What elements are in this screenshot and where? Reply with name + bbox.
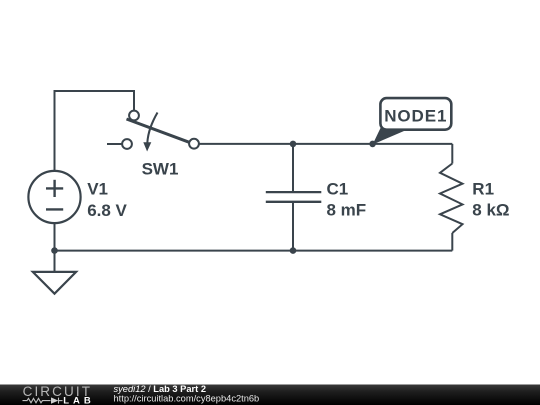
wire V1 bottom to ground junction	[54, 223, 56, 251]
svg-text:SW1: SW1	[142, 160, 179, 179]
ground	[33, 251, 76, 294]
junction dot C1 top	[290, 141, 297, 148]
svg-text:R1: R1	[472, 180, 494, 199]
junction dot C1 bottom	[290, 247, 297, 254]
svg-text:LAB: LAB	[63, 396, 95, 405]
wire from V1 top to SW1 pole terminal	[55, 91, 135, 172]
svg-text:NODE1: NODE1	[384, 106, 447, 125]
junction dot at V1/ground/bottom rail	[51, 247, 58, 254]
CircuitLab logo	[23, 384, 95, 405]
svg-text:syedi12 / Lab 3 Part 2: syedi12 / Lab 3 Part 2	[114, 384, 207, 394]
svg-text:8 kΩ: 8 kΩ	[472, 200, 509, 219]
node NODE1 dot	[369, 141, 376, 148]
capacitor C1	[266, 144, 322, 251]
footer bar	[0, 385, 540, 405]
svg-text:6.8 V: 6.8 V	[87, 201, 127, 220]
wire stub at SW1 left throw terminal	[107, 143, 122, 145]
svg-text:http://circuitlab.com/cy8epb4c: http://circuitlab.com/cy8epb4c2tn6b	[114, 394, 260, 404]
wire bottom rail	[55, 250, 453, 252]
switch SW1	[122, 111, 199, 152]
voltage source V1	[28, 171, 80, 223]
svg-text:8 mF: 8 mF	[327, 200, 367, 219]
wire top rail from SW1 to R1	[199, 143, 452, 145]
resistor R1	[440, 144, 463, 251]
svg-text:V1: V1	[87, 180, 108, 199]
svg-text:C1: C1	[327, 180, 349, 199]
NODE1 callout	[373, 98, 452, 144]
